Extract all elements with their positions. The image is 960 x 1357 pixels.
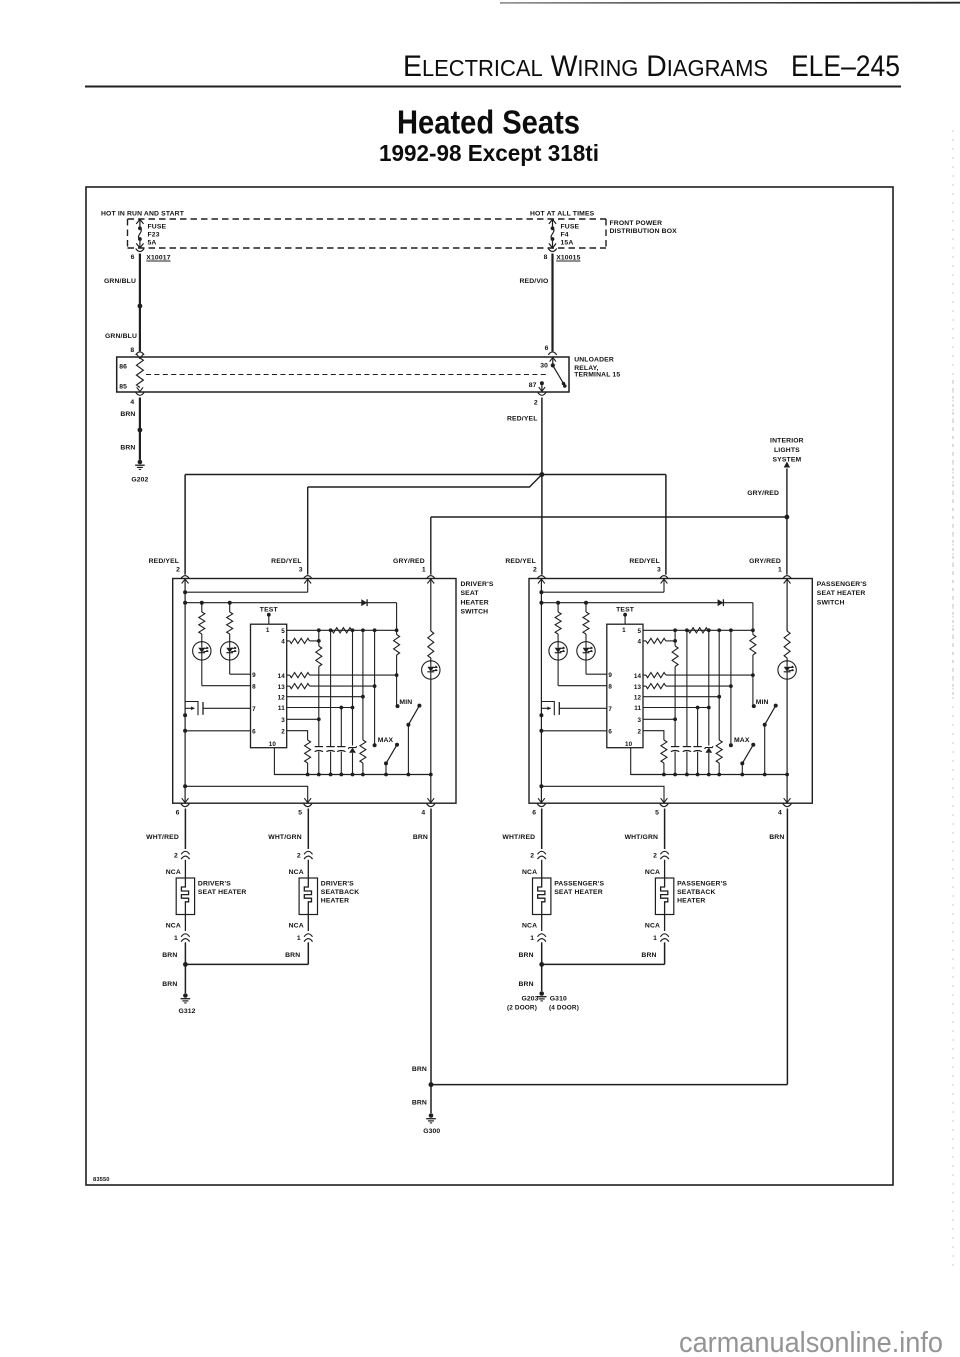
svg-text:7: 7 (252, 706, 256, 713)
svg-text:BRN: BRN (519, 981, 534, 988)
svg-text:87: 87 (529, 382, 537, 389)
svg-text:X10015: X10015 (556, 254, 580, 261)
svg-text:HEATER: HEATER (321, 898, 349, 905)
svg-text:BRN: BRN (641, 952, 656, 959)
svg-text:(2 DOOR): (2 DOOR) (507, 1004, 537, 1011)
svg-text:RED/YEL: RED/YEL (149, 558, 180, 565)
svg-text:carmanualsonline.info: carmanualsonline.info (679, 1327, 943, 1357)
svg-text:3: 3 (281, 717, 285, 724)
svg-text:NCA: NCA (645, 869, 660, 876)
svg-text:2: 2 (174, 852, 178, 859)
svg-text:NCA: NCA (166, 922, 181, 929)
svg-text:13: 13 (634, 684, 642, 691)
svg-text:12: 12 (634, 694, 642, 701)
svg-text:SWITCH: SWITCH (817, 599, 845, 606)
svg-text:WHT/RED: WHT/RED (146, 834, 179, 841)
svg-text:GRY/RED: GRY/RED (749, 558, 781, 565)
svg-text:MIN: MIN (756, 699, 769, 706)
svg-text:9: 9 (608, 672, 612, 679)
svg-text:G310: G310 (550, 995, 567, 1002)
svg-text:2: 2 (297, 852, 301, 859)
svg-text:RED/VIO: RED/VIO (520, 278, 549, 285)
svg-text:FRONT POWER: FRONT POWER (610, 220, 663, 227)
svg-text:SWITCH: SWITCH (461, 609, 489, 616)
svg-text:NCA: NCA (645, 922, 660, 929)
svg-text:TEST: TEST (260, 607, 279, 614)
svg-text:14: 14 (278, 673, 286, 680)
svg-text:11: 11 (634, 705, 641, 712)
svg-text:X10017: X10017 (146, 254, 170, 261)
svg-text:GRY/RED: GRY/RED (747, 490, 779, 497)
svg-text:5: 5 (655, 810, 659, 817)
svg-text:3: 3 (638, 717, 642, 724)
svg-text:30: 30 (540, 362, 548, 369)
svg-text:HOT IN RUN AND START: HOT IN RUN AND START (101, 211, 185, 218)
svg-text:UNLOADER: UNLOADER (574, 357, 614, 364)
svg-text:SEAT HEATER: SEAT HEATER (554, 889, 603, 896)
svg-text:SEATBACK: SEATBACK (677, 889, 715, 896)
svg-text:HEATER: HEATER (677, 898, 705, 905)
svg-text:5A: 5A (148, 240, 157, 247)
svg-text:DISTRIBUTION BOX: DISTRIBUTION BOX (610, 228, 678, 235)
svg-text:NCA: NCA (289, 922, 304, 929)
svg-text:14: 14 (634, 673, 642, 680)
svg-text:RED/YEL: RED/YEL (271, 558, 302, 565)
svg-text:G300: G300 (423, 1128, 440, 1135)
svg-text:RED/YEL: RED/YEL (505, 558, 536, 565)
svg-text:WHT/GRN: WHT/GRN (625, 834, 659, 841)
svg-text:PASSENGER'S: PASSENGER'S (554, 880, 604, 887)
svg-text:6: 6 (532, 810, 536, 817)
svg-text:(4 DOOR): (4 DOOR) (549, 1004, 579, 1011)
svg-text:BRN: BRN (769, 834, 784, 841)
svg-text:1: 1 (422, 567, 426, 574)
svg-text:SYSTEM: SYSTEM (772, 457, 801, 464)
svg-text:8: 8 (130, 347, 134, 354)
svg-text:TEST: TEST (616, 607, 635, 614)
svg-text:ELECTRICAL WIRING DIAGRAMS: ELECTRICAL WIRING DIAGRAMS (403, 50, 768, 83)
svg-text:WHT/GRN: WHT/GRN (268, 834, 302, 841)
svg-text:2: 2 (281, 728, 285, 735)
svg-text:6: 6 (131, 254, 135, 261)
svg-text:86: 86 (119, 363, 127, 370)
svg-text:5: 5 (281, 628, 285, 635)
svg-text:12: 12 (278, 694, 286, 701)
svg-text:8: 8 (544, 254, 548, 261)
svg-text:1: 1 (297, 935, 301, 942)
svg-text:PASSENGER'S: PASSENGER'S (817, 581, 867, 588)
svg-text:8: 8 (608, 683, 612, 690)
svg-text:4: 4 (421, 810, 425, 817)
svg-text:FUSE: FUSE (561, 223, 580, 230)
svg-text:BRN: BRN (120, 411, 135, 418)
svg-text:BRN: BRN (413, 834, 428, 841)
svg-text:4: 4 (281, 639, 285, 646)
svg-text:INTERIOR: INTERIOR (770, 438, 804, 445)
svg-text:2: 2 (530, 852, 534, 859)
svg-text:SEAT: SEAT (461, 590, 480, 597)
svg-text:2: 2 (534, 400, 538, 407)
svg-text:1: 1 (266, 627, 270, 634)
svg-text:G202: G202 (131, 477, 148, 484)
svg-text:NCA: NCA (166, 869, 181, 876)
svg-text:SEATBACK: SEATBACK (321, 889, 359, 896)
svg-text:F23: F23 (148, 232, 160, 239)
svg-text:2: 2 (638, 728, 642, 735)
svg-text:MIN: MIN (399, 699, 412, 706)
svg-text:RED/YEL: RED/YEL (507, 416, 538, 423)
svg-text:MAX: MAX (734, 737, 750, 744)
svg-text:DRIVER'S: DRIVER'S (321, 880, 354, 887)
svg-text:5: 5 (638, 628, 642, 635)
svg-text:3: 3 (657, 567, 661, 574)
svg-text:HOT AT ALL TIMES: HOT AT ALL TIMES (530, 211, 595, 218)
svg-text:83550: 83550 (93, 1177, 110, 1183)
svg-text:10: 10 (625, 741, 633, 748)
svg-text:13: 13 (278, 684, 286, 691)
svg-text:SEAT HEATER: SEAT HEATER (198, 889, 247, 896)
svg-text:BRN: BRN (519, 952, 534, 959)
svg-text:85: 85 (119, 383, 127, 390)
svg-text:BRN: BRN (162, 981, 177, 988)
svg-text:4: 4 (130, 399, 134, 406)
svg-text:RED/YEL: RED/YEL (629, 558, 660, 565)
svg-text:10: 10 (269, 741, 277, 748)
svg-text:G203: G203 (521, 995, 538, 1002)
svg-text:GRY/RED: GRY/RED (393, 558, 425, 565)
svg-text:BRN: BRN (412, 1066, 427, 1073)
svg-text:1: 1 (174, 935, 178, 942)
svg-text:NCA: NCA (289, 869, 304, 876)
svg-text:1: 1 (622, 627, 626, 634)
svg-text:7: 7 (608, 706, 612, 713)
svg-text:2: 2 (533, 567, 537, 574)
svg-text:SEAT HEATER: SEAT HEATER (817, 590, 866, 597)
svg-text:WHT/RED: WHT/RED (502, 834, 535, 841)
svg-text:9: 9 (252, 672, 256, 679)
svg-text:2: 2 (653, 852, 657, 859)
svg-text:1992-98 Except 318ti: 1992-98 Except 318ti (379, 140, 599, 166)
svg-text:TERMINAL 15: TERMINAL 15 (574, 372, 620, 379)
svg-text:MAX: MAX (378, 737, 394, 744)
svg-text:GRN/BLU: GRN/BLU (105, 333, 137, 340)
svg-text:2: 2 (176, 567, 180, 574)
svg-text:ELE–245: ELE–245 (791, 50, 900, 83)
svg-text:3: 3 (299, 567, 303, 574)
svg-text:11: 11 (278, 705, 285, 712)
svg-text:GRN/BLU: GRN/BLU (104, 278, 136, 285)
svg-text:F4: F4 (561, 232, 569, 239)
svg-text:NCA: NCA (522, 922, 537, 929)
svg-text:6: 6 (608, 729, 612, 736)
svg-text:FUSE: FUSE (148, 223, 167, 230)
svg-text:8: 8 (252, 683, 256, 690)
svg-text:BRN: BRN (412, 1100, 427, 1107)
svg-text:5: 5 (298, 810, 302, 817)
svg-text:HEATER: HEATER (461, 599, 489, 606)
svg-text:1: 1 (530, 935, 534, 942)
svg-text:4: 4 (638, 639, 642, 646)
svg-text:LIGHTS: LIGHTS (774, 447, 800, 454)
svg-text:BRN: BRN (120, 444, 135, 451)
svg-text:15A: 15A (561, 240, 574, 247)
svg-text:Heated Seats: Heated Seats (397, 104, 580, 141)
svg-text:DRIVER'S: DRIVER'S (461, 581, 494, 588)
svg-text:4: 4 (778, 810, 782, 817)
svg-text:6: 6 (176, 810, 180, 817)
svg-text:1: 1 (778, 567, 782, 574)
svg-text:BRN: BRN (285, 952, 300, 959)
svg-text:BRN: BRN (162, 952, 177, 959)
svg-text:PASSENGER'S: PASSENGER'S (677, 880, 727, 887)
svg-text:1: 1 (653, 935, 657, 942)
svg-text:NCA: NCA (522, 869, 537, 876)
svg-text:G312: G312 (178, 1008, 195, 1015)
svg-text:6: 6 (545, 345, 549, 352)
svg-text:6: 6 (252, 729, 256, 736)
svg-text:DRIVER'S: DRIVER'S (198, 880, 231, 887)
